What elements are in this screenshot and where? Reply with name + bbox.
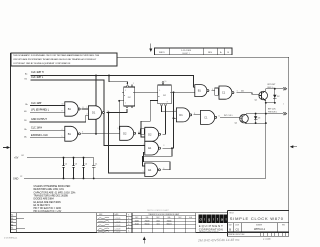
wire box to D2b bbox=[138, 132, 140, 134]
svg-text:D CS W870-0-1: D CS W870-0-1 bbox=[4, 238, 17, 240]
svg-text:i: i bbox=[204, 217, 205, 222]
node CLK 1MP L (L2) bbox=[25, 76, 145, 145]
gate E1b bbox=[145, 163, 161, 177]
transistor Q1 bbox=[255, 91, 268, 102]
capacitor C2 bbox=[62, 157, 67, 180]
capacitor C1 bbox=[92, 158, 97, 180]
copyright notice box bbox=[11, 53, 117, 66]
wire D1b out to C2 bbox=[194, 114, 201, 116]
wire vertical bus to latch bbox=[172, 92, 174, 148]
svg-text:CS: CS bbox=[235, 228, 239, 231]
wire D1 junction down to latch G5 bbox=[109, 113, 145, 174]
svg-text:5: 5 bbox=[62, 136, 63, 138]
svg-text:6: 6 bbox=[163, 168, 164, 170]
pin box before C1 bbox=[215, 88, 219, 95]
svg-text:INT CLK: INT CLK bbox=[268, 108, 276, 110]
svg-text:1 C#8: 1 C#8 bbox=[263, 237, 271, 241]
svg-text:2M 3HC+DVSC4# 14-48 mc: 2M 3HC+DVSC4# 14-48 mc bbox=[197, 238, 240, 243]
wire C2 out to Q2 base, label INT CLK L bbox=[220, 116, 240, 118]
svg-text:NUMBER: NUMBER bbox=[256, 224, 262, 226]
svg-text:7400N: 7400N bbox=[135, 223, 139, 225]
svg-text:1: 1 bbox=[143, 144, 144, 146]
svg-text:SIZE: SIZE bbox=[229, 224, 232, 226]
gate B1b bbox=[65, 126, 81, 141]
gate D2b bbox=[145, 127, 161, 141]
svg-text:C4: C4 bbox=[85, 163, 87, 165]
svg-text:B1: B1 bbox=[198, 89, 202, 93]
svg-text:A1: A1 bbox=[11, 217, 13, 220]
gate C2 bbox=[201, 110, 217, 124]
bottom centering arrow bbox=[143, 237, 146, 244]
svg-text:SHEET 1: SHEET 1 bbox=[182, 53, 189, 55]
svg-text:5: 5 bbox=[143, 171, 144, 173]
svg-text:9: 9 bbox=[175, 110, 176, 112]
svg-text:TITLE: TITLE bbox=[229, 212, 235, 214]
signature block bbox=[97, 213, 127, 234]
svg-text:B1: B1 bbox=[68, 132, 72, 136]
title block bbox=[228, 211, 289, 237]
left centering arrow bbox=[3, 146, 10, 149]
svg-text:D2: D2 bbox=[123, 131, 127, 135]
svg-text:10: 10 bbox=[62, 104, 64, 106]
svg-text:1: 1 bbox=[283, 89, 284, 91]
svg-text:1N3606: 1N3606 bbox=[167, 220, 172, 222]
gate C1 bbox=[219, 86, 234, 99]
sheet top border bbox=[117, 56, 289, 58]
gate E1a bbox=[145, 141, 161, 155]
svg-text:B1: B1 bbox=[68, 107, 72, 111]
svg-text:CODE: CODE bbox=[235, 224, 239, 226]
svg-text:PARTS LOCATION CHART: PARTS LOCATION CHART bbox=[147, 209, 170, 212]
svg-text:g: g bbox=[208, 217, 210, 222]
svg-text:GND OUTPUT: GND OUTPUT bbox=[31, 118, 47, 121]
wire FF1 side pin down to D2a input bbox=[119, 101, 122, 130]
svg-text:1-15-69: 1-15-69 bbox=[115, 218, 121, 220]
svg-text:A1: A1 bbox=[11, 227, 13, 230]
svg-text:11: 11 bbox=[218, 116, 220, 118]
svg-text:CLK 1MP H: CLK 1MP H bbox=[31, 71, 44, 74]
svg-text:A1: A1 bbox=[11, 220, 13, 223]
svg-text:C3: C3 bbox=[75, 163, 77, 165]
top centering arrow bbox=[149, 44, 152, 53]
svg-text:C2: C2 bbox=[65, 163, 67, 165]
pencil scribble below title block bbox=[197, 237, 271, 242]
wire FF2 left pin loop to D2b input bbox=[141, 101, 158, 138]
svg-text:2N3639: 2N3639 bbox=[145, 220, 150, 222]
node CLC 1M H (L6) bbox=[24, 127, 65, 131]
diode D3 bbox=[254, 113, 261, 123]
transistor & diode conversion chart bbox=[132, 209, 196, 232]
svg-text:1: 1 bbox=[133, 83, 134, 85]
svg-text:SN7400: SN7400 bbox=[144, 223, 149, 225]
svg-text:4: 4 bbox=[126, 83, 127, 85]
svg-text:1: 1 bbox=[87, 107, 88, 109]
sheet left border bbox=[10, 53, 12, 233]
revision table bottom left bbox=[11, 213, 26, 233]
wire D1 out / junction bbox=[107, 109, 127, 113]
svg-text:9: 9 bbox=[159, 90, 160, 92]
svg-text:C2: C2 bbox=[20, 176, 22, 178]
flip-flop E4a (FF1) bbox=[122, 83, 135, 108]
node CLC 1MP (L3) bbox=[25, 102, 65, 106]
svg-text:PIN 7 ON EACH IC = GND: PIN 7 ON EACH IC = GND bbox=[34, 207, 62, 210]
svg-text:E1: E1 bbox=[148, 168, 152, 172]
wire B1c out bbox=[212, 90, 215, 92]
svg-text:D1: D1 bbox=[179, 113, 183, 117]
svg-text:A1: A1 bbox=[11, 214, 13, 217]
svg-text:9: 9 bbox=[62, 111, 63, 113]
capacitor C3 bbox=[72, 157, 77, 180]
svg-text:E1: E1 bbox=[148, 146, 152, 150]
wire C1 to Q1 base, label 401 bbox=[236, 93, 259, 95]
svg-text:W870: W870 bbox=[159, 52, 165, 54]
svg-text:1-15-69: 1-15-69 bbox=[115, 225, 121, 227]
svg-text:CLC 1M H: CLC 1M H bbox=[31, 127, 42, 130]
svg-text:SIMPLE CLOCK W870: SIMPLE CLOCK W870 bbox=[230, 216, 284, 221]
svg-text:3: 3 bbox=[163, 145, 164, 147]
gate B1a bbox=[65, 102, 80, 116]
svg-text:d: d bbox=[200, 217, 202, 222]
gate D1 bbox=[88, 106, 104, 120]
svg-text:8: 8 bbox=[83, 107, 84, 109]
wire L1 drop to gate chain bbox=[95, 76, 97, 134]
svg-text:4: 4 bbox=[62, 129, 63, 131]
svg-text:1-15-1969: 1-15-1969 bbox=[181, 50, 192, 52]
svg-text:8: 8 bbox=[139, 131, 140, 133]
svg-text:2: 2 bbox=[125, 103, 126, 105]
svg-text:CORPORATION: CORPORATION bbox=[199, 227, 223, 231]
node INT OUT BUS L bbox=[266, 84, 287, 90]
svg-text:D2: D2 bbox=[148, 132, 152, 136]
svg-text:i: i bbox=[213, 217, 214, 222]
svg-text:8: 8 bbox=[194, 113, 195, 115]
svg-text:COPYRIGHT 1969 BY DIGITAL EQUI: COPYRIGHT 1969 BY DIGITAL EQUIPMENT CORP… bbox=[13, 62, 71, 65]
wire branch to D1b lower input bbox=[174, 117, 177, 119]
revision strip bbox=[155, 48, 233, 55]
svg-text:1: 1 bbox=[193, 86, 194, 88]
svg-text:DIODES ARE D664: DIODES ARE D664 bbox=[34, 198, 55, 201]
svg-text:6: 6 bbox=[237, 91, 238, 93]
svg-text:UNLESS OTHERWISE INDICATED:: UNLESS OTHERWISE INDICATED: bbox=[34, 185, 72, 188]
svg-text:A1: A1 bbox=[11, 223, 13, 226]
svg-text:LPL (EXPAND) L: LPL (EXPAND) L bbox=[31, 108, 50, 111]
wire B1a out to D1 bbox=[82, 108, 89, 110]
wire emitter down long vertical bbox=[265, 103, 267, 179]
svg-text:3: 3 bbox=[108, 110, 109, 112]
svg-text:7474: 7474 bbox=[156, 223, 159, 225]
svg-text:CLC 1MP: CLC 1MP bbox=[31, 102, 42, 105]
svg-text:PRINTED CIRCUIT REV.: PRINTED CIRCUIT REV. bbox=[229, 234, 246, 236]
node GND OUTPUT (L5) bbox=[24, 115, 88, 122]
DEC digital logo bbox=[196, 214, 228, 234]
svg-text:2: 2 bbox=[283, 104, 284, 106]
svg-text:2: 2 bbox=[87, 114, 88, 116]
svg-text:401: 401 bbox=[241, 90, 244, 92]
svg-text:3: 3 bbox=[212, 89, 213, 91]
sheet right border bbox=[288, 57, 290, 210]
wire +5V corner to C1 bbox=[93, 157, 95, 159]
svg-text:8: 8 bbox=[167, 101, 168, 103]
svg-text:D1: D1 bbox=[92, 111, 96, 115]
bottom strip top line bbox=[11, 212, 228, 214]
svg-text:INT CLK L: INT CLK L bbox=[224, 115, 233, 117]
svg-text:GND: GND bbox=[13, 178, 19, 181]
svg-text:B2: B2 bbox=[22, 155, 24, 157]
wire E1a out junction bbox=[163, 147, 172, 149]
svg-text:1-15-69: 1-15-69 bbox=[115, 229, 121, 231]
svg-text:6: 6 bbox=[82, 131, 83, 133]
eco column bbox=[126, 213, 132, 233]
svg-text:INT OUT: INT OUT bbox=[268, 84, 277, 86]
svg-text:3639B: 3639B bbox=[135, 220, 139, 222]
gate D1b bbox=[176, 108, 191, 122]
wire E1b out cross couple 2 bbox=[144, 152, 171, 169]
svg-text:E4 IS DEC7474: E4 IS DEC7474 bbox=[34, 205, 51, 207]
wire FF1 Q to FF2 bbox=[135, 91, 158, 93]
svg-text:10: 10 bbox=[165, 81, 167, 83]
svg-text:THIS SCHEMATIC IS FURNISHED ON: THIS SCHEMATIC IS FURNISHED ONLY FOR TES… bbox=[13, 54, 100, 57]
svg-text:C1: C1 bbox=[95, 163, 97, 165]
wire Q1 emitter line bbox=[266, 100, 275, 103]
svg-text:REV: REV bbox=[208, 52, 213, 54]
wire D2b out up to FF2 bottom pin bbox=[162, 109, 165, 134]
svg-text:W870-0-1: W870-0-1 bbox=[254, 228, 266, 231]
gate D2a bbox=[120, 126, 136, 140]
svg-text:E1,E2,E3 ARE DEC7400N: E1,E2,E3 ARE DEC7400N bbox=[34, 201, 62, 204]
node LPL (EXPAND) L (L4) bbox=[24, 108, 65, 112]
svg-text:C1: C1 bbox=[204, 115, 208, 119]
wire L1 to FF1 top pin bbox=[109, 76, 128, 85]
svg-text:CIRCUITS ARE PROPRIETARY IN NA: CIRCUITS ARE PROPRIETARY IN NATURE AND S… bbox=[13, 58, 97, 61]
svg-text:1-15-69: 1-15-69 bbox=[115, 221, 121, 223]
pin box between gates bbox=[138, 132, 140, 134]
svg-text:1-15-69: 1-15-69 bbox=[115, 231, 121, 233]
wire Q2 collector to INT CLK bus bbox=[246, 113, 248, 115]
flip-flop E4b (FF2) bbox=[158, 81, 172, 109]
diode D2 bbox=[273, 88, 280, 103]
svg-text:C1: C1 bbox=[222, 91, 226, 95]
wire FF2 Q out to gate B1c bbox=[171, 91, 195, 93]
svg-text:TRANSISTORS ARE DEC 3639B: TRANSISTORS ARE DEC 3639B bbox=[34, 194, 69, 197]
svg-text:PIN BUS L: PIN BUS L bbox=[268, 111, 277, 113]
svg-text:RESISTORS ARE 1/4W; 10%: RESISTORS ARE 1/4W; 10% bbox=[34, 188, 64, 191]
wire Q1 collector to INT OUT bbox=[265, 89, 267, 91]
wire B1b out to D2 bbox=[82, 133, 120, 135]
svg-text:DRN: DRN bbox=[99, 214, 102, 216]
svg-text:+5V: +5V bbox=[14, 157, 19, 160]
svg-text:CAPACITORS ARE .01 MFD; 100V;: CAPACITORS ARE .01 MFD; 100V; 20% bbox=[34, 191, 76, 194]
svg-text:B: B bbox=[229, 227, 231, 231]
right centering arrow bbox=[290, 145, 297, 148]
node EXPAND L CLK (L7) bbox=[24, 134, 65, 138]
wire cross couple 1 bbox=[143, 148, 173, 166]
node INT CLK PIN BUS L bbox=[247, 108, 287, 115]
svg-text:l: l bbox=[226, 217, 227, 222]
capacitor C4 bbox=[82, 157, 87, 180]
gate B1c bbox=[195, 85, 209, 97]
svg-text:EXPAND L CLK: EXPAND L CLK bbox=[31, 134, 48, 137]
wire Q2 emitter line bbox=[247, 122, 266, 124]
wire FF2 bottom pin to gate D1b input bbox=[162, 108, 177, 112]
transistor Q2 bbox=[235, 114, 249, 125]
node GND rail bbox=[13, 176, 266, 180]
svg-text:CLK 1MP L: CLK 1MP L bbox=[31, 76, 44, 79]
svg-text:D664: D664 bbox=[156, 220, 160, 222]
node +5V rail bbox=[14, 155, 94, 159]
notes text block bbox=[34, 185, 76, 213]
svg-text:9: 9 bbox=[118, 128, 119, 130]
svg-text:5: 5 bbox=[125, 90, 126, 92]
node CLK 1MP H (L1) bbox=[25, 71, 195, 87]
svg-text:SN7474: SN7474 bbox=[166, 223, 171, 225]
sheet bottom border bbox=[11, 232, 289, 234]
